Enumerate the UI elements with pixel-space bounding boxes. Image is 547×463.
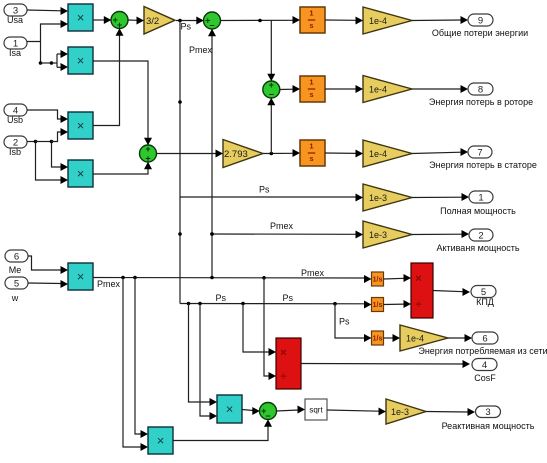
wire In6 to M5 input1: [28, 256, 68, 274]
svg-text:8: 8: [478, 84, 483, 95]
svg-text:Me: Me: [9, 265, 22, 275]
svg-text:×: ×: [77, 269, 85, 284]
wire Isa branch down to M2 fork: [39, 42, 57, 65]
svg-text:Энергия потребляемая из сети: Энергия потребляемая из сети: [418, 346, 547, 356]
svg-text:Активаня мощность: Активаня мощность: [436, 243, 519, 253]
port Out8: [468, 83, 493, 95]
port In6 Me: [5, 250, 28, 262]
wire Pmex branch to M7 input1: [135, 278, 148, 439]
wire In5 to M5 input2: [28, 280, 68, 288]
wire Ps branch to M6 input2: [200, 304, 217, 421]
wire S5 output to sqrt: [276, 406, 305, 414]
port In1 Isa: [4, 37, 27, 49]
svg-text:2.793: 2.793: [224, 149, 248, 160]
wire In4 to M3 input1: [27, 110, 68, 123]
gain G5 (1e-4): [363, 140, 412, 167]
svg-text:1e-3: 1e-3: [391, 407, 409, 417]
svg-text:Энергия потерь в статоре: Энергия потерь в статоре: [429, 160, 537, 170]
wire M7 output to S5 bottom: [173, 419, 272, 440]
wire M1 output to S1: [93, 16, 111, 24]
wire Ps lower distribution line: [180, 301, 372, 309]
sum S2 (+-): [204, 12, 221, 30]
wire I5 to D1 denominator: [384, 300, 412, 308]
integrator I6 (1/s): [372, 331, 384, 345]
svg-text:4: 4: [482, 360, 487, 371]
svg-text:Usb: Usb: [7, 115, 23, 125]
wire Pmex branch to D2 denominator: [264, 278, 276, 380]
wire Pmex main line from M5: [93, 275, 372, 283]
divide block D1 KPD: [411, 263, 433, 318]
svg-text:×: ×: [77, 166, 85, 181]
port In5 w: [5, 277, 28, 289]
wire Ps vertical trunk down: [178, 21, 182, 304]
wire fork bracket into M2 inputs: [57, 50, 68, 71]
sum S1 (++): [111, 12, 128, 30]
wire S1 output to gain 3/2: [128, 17, 144, 25]
wire gain 1e-3 to port 2: [412, 230, 469, 238]
port Out6: [472, 332, 498, 344]
wire Ps branch to M6 input1: [189, 304, 218, 407]
svg-text:Полная мощность: Полная мощность: [440, 206, 516, 216]
svg-text:×: ×: [415, 273, 421, 285]
port Out1: [469, 191, 493, 203]
gain G4 (1e-4): [363, 76, 412, 103]
svg-text:Pmex: Pmex: [301, 268, 325, 278]
wire M4 output up to S3 plus (bottom): [93, 162, 152, 174]
svg-text:×: ×: [280, 347, 286, 359]
svg-text:1: 1: [309, 77, 313, 86]
port Out9: [468, 14, 493, 26]
svg-text:9: 9: [478, 15, 483, 26]
svg-text:Usa: Usa: [7, 15, 23, 25]
wire S4 output to integrator I2: [280, 85, 301, 93]
integrator I4 (1/s): [372, 272, 384, 286]
wire I4 to D1 numerator: [384, 274, 412, 282]
wire gain 2.793 output to integrator I3: [263, 149, 300, 157]
svg-text:×: ×: [77, 118, 85, 133]
svg-text:Isa: Isa: [9, 48, 21, 58]
wire D2 output to port 4 CosF: [301, 360, 470, 368]
svg-text:3: 3: [485, 407, 490, 418]
port Out7: [468, 146, 492, 158]
svg-text:Энергия потерь в роторе: Энергия потерь в роторе: [429, 97, 533, 107]
product block M3 Usb*Isb: [68, 112, 93, 139]
wire Pmex branch to M7 input2: [123, 278, 148, 452]
svg-text:1: 1: [309, 8, 313, 17]
gain G6 (1e-3): [363, 184, 412, 211]
svg-text:1e-4: 1e-4: [406, 334, 424, 344]
svg-text:6: 6: [14, 251, 19, 262]
svg-text:Ps: Ps: [339, 317, 350, 327]
svg-text:1: 1: [309, 141, 313, 150]
wire In3 to M1 input1: [27, 7, 68, 15]
wire In2 to M4 input2 via left branch: [27, 140, 68, 184]
gain G9 (1e-3): [386, 399, 426, 424]
wire Ps to gain 1e-3 (full power row): [180, 194, 363, 202]
wire I3 to gain 1e-4 row7: [325, 150, 363, 158]
svg-text:1: 1: [478, 192, 483, 203]
svg-text:5: 5: [14, 278, 19, 289]
svg-text:Isb: Isb: [9, 147, 21, 157]
svg-text:7: 7: [477, 147, 482, 158]
wire M2 output down to S3 plus (top): [93, 61, 152, 145]
wire sqrt to gain 1e-3: [327, 408, 386, 416]
svg-text:s: s: [309, 21, 313, 30]
gain G2 (2.793): [223, 140, 263, 168]
svg-text:Реактивная мощность: Реактивная мощность: [442, 421, 535, 431]
svg-text:Pmex: Pmex: [189, 45, 213, 55]
product block M7 Pmex*Pmex: [148, 427, 173, 454]
wire gain to port 3: [426, 408, 475, 416]
wire Pmex to gain 1e-3 (active power row): [210, 231, 363, 239]
gain G7 (1e-3): [363, 221, 412, 248]
wire gain to port 8: [412, 85, 468, 93]
svg-text:s: s: [309, 154, 313, 163]
gain G3 (1e-4): [363, 7, 412, 34]
divide block D2 CosF: [276, 338, 301, 389]
wire S3 output to gain 2.793: [156, 150, 223, 158]
wire gain to port 7: [412, 148, 468, 156]
svg-text:Ps: Ps: [181, 22, 192, 32]
port In4 Usb: [4, 104, 27, 116]
svg-text:КПД: КПД: [476, 297, 494, 307]
wire I6 to gain 1e-4: [384, 334, 401, 342]
wire I1 to gain 1e-4 row9: [325, 17, 363, 25]
port Out5: [471, 286, 496, 298]
svg-text:Ps: Ps: [283, 293, 294, 303]
svg-text:×: ×: [157, 433, 165, 448]
wire gain to port 9: [412, 16, 468, 24]
svg-text:6: 6: [482, 333, 487, 344]
sum S5 (+-): [260, 403, 277, 421]
port Out2: [469, 229, 493, 241]
svg-text:1e-4: 1e-4: [369, 16, 387, 26]
port In3 Usa: [4, 4, 27, 16]
wire gain 1e-3 to port 1: [412, 193, 469, 201]
svg-text:1/s: 1/s: [373, 277, 383, 284]
wire Ps branch to integrator I6: [335, 304, 372, 342]
gain G1 (3/2): [144, 7, 175, 35]
svg-text:3/2: 3/2: [146, 16, 159, 27]
svg-text:÷: ÷: [280, 371, 286, 383]
svg-text:CosF: CosF: [474, 373, 496, 383]
wire branch down to S4 plus input: [267, 20, 275, 81]
wire D1 output to port 5: [433, 288, 470, 296]
wire junction up to S4 minus input: [267, 98, 275, 154]
svg-text:Ps: Ps: [216, 293, 227, 303]
svg-text:×: ×: [77, 53, 85, 68]
product block M4 Isb*Isb: [68, 160, 93, 187]
svg-text:×: ×: [226, 402, 234, 417]
product block M5 Me*w: [68, 263, 93, 290]
svg-text:1e-3: 1e-3: [369, 193, 387, 203]
integrator I2 (1/s): [300, 76, 325, 102]
svg-text:2: 2: [478, 230, 483, 241]
svg-text:÷: ÷: [415, 299, 421, 311]
sum S4 (+-): [263, 80, 280, 99]
svg-text:1e-4: 1e-4: [369, 149, 387, 159]
product block M2 Isa*Isa: [68, 47, 93, 74]
wire In1 to M1 input2 (elbow up): [27, 20, 68, 42]
wire gain 3/2 output to S2 (Ps): [176, 17, 204, 25]
product block M6 Ps*Ps: [217, 395, 242, 423]
wire M6 output to S5: [242, 407, 260, 415]
svg-text:Ps: Ps: [259, 185, 270, 195]
wire Pmex vertical up to S2 minus input: [208, 29, 216, 278]
svg-text:1/s: 1/s: [373, 302, 383, 309]
svg-text:sqrt: sqrt: [309, 406, 323, 415]
wire M3 output up to S1 bottom: [93, 28, 124, 125]
port Out4: [472, 359, 497, 371]
wire I2 to gain 1e-4 row8: [325, 85, 363, 93]
wire Ps branch to D2 numerator: [243, 304, 276, 357]
svg-text:1e-3: 1e-3: [369, 230, 387, 240]
svg-text:1e-4: 1e-4: [369, 85, 387, 95]
integrator I5 (1/s): [372, 298, 384, 312]
svg-text:s: s: [309, 90, 313, 99]
svg-text:Pmex: Pmex: [97, 279, 121, 289]
wire S2 output to integrator I1: [220, 16, 300, 24]
wire Isb branch to M3 input2 (elbow up): [52, 128, 69, 142]
svg-text:w: w: [11, 293, 19, 303]
svg-text:Pmex: Pmex: [270, 221, 294, 231]
port In2 Isb: [4, 136, 27, 148]
product block M1 Usa*Isa: [68, 4, 93, 31]
sqrt block: [305, 399, 327, 420]
svg-text:1/s: 1/s: [373, 336, 383, 343]
svg-text:×: ×: [77, 10, 85, 25]
sum S3 (++): [140, 144, 157, 163]
port Out3: [476, 406, 501, 418]
wire gain to port 6: [448, 334, 472, 342]
gain G8 (1e-4): [400, 325, 448, 351]
svg-text:Общие потери энергии: Общие потери энергии: [432, 28, 528, 38]
wire Isb branch to M4 input1: [36, 140, 69, 171]
integrator I3 (1/s): [300, 140, 325, 166]
integrator I1 (1/s): [300, 7, 325, 33]
